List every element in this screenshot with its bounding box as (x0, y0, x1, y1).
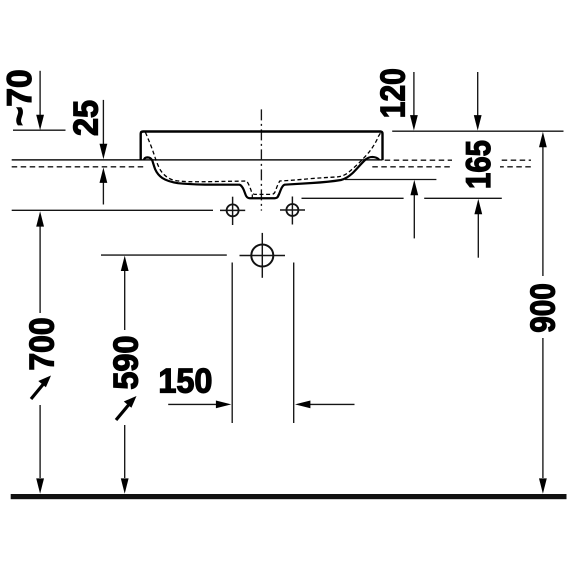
dimension label 900 (524, 278, 562, 338)
leader arrow for 590 (116, 396, 137, 420)
dimension 25 lower arrow up at x=103.4 (102, 182, 104, 205)
dimension 700 line at x=40.1: arrow up at y=211, down at floor (39, 226, 41, 313)
drain boss inner ticks (251, 195, 253, 199)
dashed counter-bottom line left y=166.8 (12, 166, 146, 168)
svg-text:120: 120 (375, 68, 413, 118)
svg-text:~70: ~70 (1, 69, 39, 126)
centerline dash-dot x=261.4 (260, 109, 262, 210)
countertop line solid y=159.9 (12, 159, 383, 161)
dimension 150: extension verticals from faucet holes (231, 263, 233, 424)
dimension ~70 shaft+arrow down at x=40.1 (39, 71, 41, 116)
faucet hole right circle (286, 204, 298, 216)
extension line right at rim level y=131.2 (392, 130, 563, 132)
faucet hole left circle (227, 204, 239, 216)
dimension 900 line at x=542.9 (542, 146, 544, 276)
extension line drain level y=255.1 (101, 254, 227, 256)
svg-text:900: 900 (524, 283, 562, 333)
svg-text:590: 590 (108, 336, 146, 390)
dimension label 590 (108, 331, 146, 393)
dashed counter-bottom line right y=166.8 (372, 166, 531, 168)
basin inner bowl contour (hidden, dashed) (145, 132, 380, 194)
dimension 120 arrows down at x=413.9 and x=477.7 (413, 72, 415, 116)
leader arrow for 700 (31, 376, 51, 400)
svg-text:700: 700 (24, 318, 62, 371)
svg-text:25: 25 (68, 100, 106, 136)
dimension 590 line at x=124.7: arrow up at y=255.6, down at floor (124, 270, 126, 330)
basin rim outline (141, 132, 383, 161)
dimension label 165 (452, 138, 500, 191)
dimension 120 arrow up at x=414.3 (413, 194, 415, 238)
floor line (11, 494, 567, 499)
dimension 25 upper arrow down at x=103.4 (102, 100, 104, 145)
svg-text:165: 165 (460, 140, 498, 189)
dimension 150 arrows (168, 403, 216, 405)
extension line left at rim level y=130 (13, 129, 66, 131)
drain circle (251, 245, 273, 267)
dashed counter line right y=160.2 (385, 159, 531, 161)
svg-text:150: 150 (158, 362, 212, 400)
extension line drain-boss bottom y=198.3 (two segments, gap at 120-arrow) (302, 197, 404, 199)
basin outer bowl profile with drain boss (144, 157, 379, 198)
dimension 165 arrow up at x=478.3 (477, 213, 479, 258)
extension line bowl-bottom tangent y=179.35 (345, 179, 436, 181)
dimension label 700 (24, 313, 62, 373)
extension line faucet level left y=210.3 (12, 209, 213, 211)
